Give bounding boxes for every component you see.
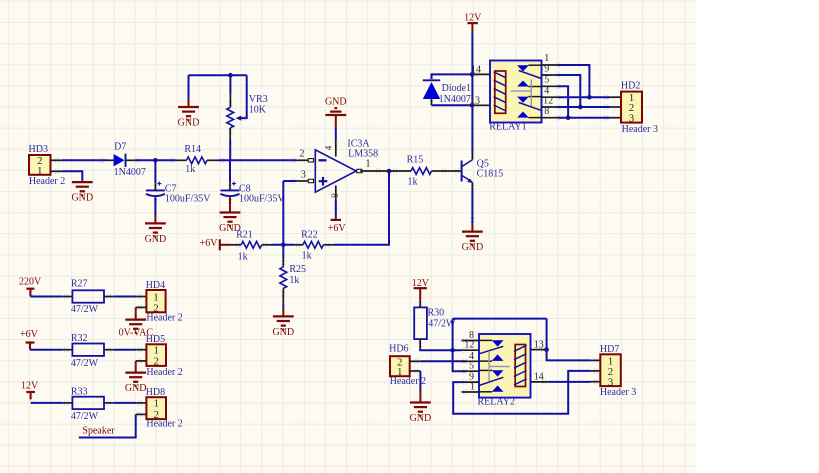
svg-text:47/2W: 47/2W [71,304,99,315]
svg-text:1k: 1k [185,164,195,175]
svg-text:1k: 1k [289,275,299,286]
svg-text:14: 14 [471,65,481,76]
svg-text:3: 3 [629,113,635,125]
svg-text:1: 1 [544,53,549,64]
svg-text:220V: 220V [19,277,42,288]
svg-text:13: 13 [470,95,480,106]
svg-text:8: 8 [329,193,339,198]
svg-text:R15: R15 [407,155,424,166]
svg-text:1N4007: 1N4007 [439,94,471,105]
svg-text:GND: GND [410,413,432,424]
svg-text:HD2: HD2 [621,80,640,91]
svg-text:R32: R32 [71,333,88,344]
svg-text:Header 3: Header 3 [622,124,658,135]
svg-text:GND: GND [178,118,200,129]
svg-text:5: 5 [544,75,549,86]
svg-text:LM358: LM358 [348,149,378,160]
svg-text:10K: 10K [249,104,267,115]
svg-text:1: 1 [366,158,371,169]
svg-text:Header 2: Header 2 [29,176,65,187]
svg-text:+6V: +6V [200,238,219,249]
svg-text:C1815: C1815 [477,169,504,180]
svg-text:12V: 12V [412,278,430,289]
svg-text:RELAY2: RELAY2 [478,396,515,407]
svg-text:HD7: HD7 [600,344,619,355]
svg-text:9: 9 [544,64,549,75]
svg-text:R22: R22 [301,230,318,241]
svg-text:GND: GND [325,97,347,108]
svg-text:4: 4 [323,145,333,150]
svg-text:100uF/35V: 100uF/35V [165,194,211,205]
svg-text:12V: 12V [464,13,482,24]
svg-text:Header 3: Header 3 [600,387,636,398]
svg-text:HD4: HD4 [146,280,165,291]
svg-text:12V: 12V [21,381,39,392]
svg-text:3: 3 [301,170,306,181]
svg-text:R21: R21 [236,230,253,241]
svg-text:Speaker: Speaker [82,426,115,437]
svg-text:100uF/35V: 100uF/35V [239,194,285,205]
svg-text:8: 8 [544,106,549,117]
svg-text:R14: R14 [184,144,201,155]
svg-text:HD5: HD5 [146,334,165,345]
svg-text:GND: GND [462,242,484,253]
svg-text:GND: GND [125,383,147,394]
svg-text:Header 2: Header 2 [146,419,182,430]
svg-text:1k: 1k [302,251,312,262]
svg-text:2: 2 [153,356,159,368]
svg-text:GND: GND [145,234,167,245]
svg-text:R33: R33 [71,386,88,397]
svg-text:R30: R30 [428,307,445,318]
svg-text:14: 14 [534,371,544,382]
svg-text:GND: GND [272,327,294,338]
svg-text:+6V: +6V [20,329,39,340]
svg-text:13: 13 [534,339,544,350]
svg-text:5: 5 [469,361,474,372]
svg-text:VR3: VR3 [249,94,268,105]
svg-text:D7: D7 [114,141,126,152]
svg-text:1k: 1k [408,177,418,188]
svg-text:HD6: HD6 [389,344,408,355]
svg-text:12: 12 [464,340,474,351]
svg-text:1: 1 [470,382,475,393]
svg-text:R25: R25 [289,264,306,275]
svg-text:Header 2: Header 2 [146,367,182,378]
svg-text:GND: GND [71,193,93,204]
svg-text:Diode1: Diode1 [442,83,471,94]
svg-text:1k: 1k [238,251,248,262]
svg-text:HD8: HD8 [146,387,165,398]
svg-text:47/2W: 47/2W [71,411,99,422]
svg-text:47/2W: 47/2W [71,358,99,369]
svg-text:Header 2: Header 2 [146,313,182,324]
svg-text:HD3: HD3 [29,144,48,155]
svg-text:2: 2 [300,149,305,160]
svg-text:1N4007: 1N4007 [114,167,146,178]
svg-text:R27: R27 [71,279,88,290]
svg-text:RELAY1: RELAY1 [489,121,526,132]
svg-text:12: 12 [543,96,553,107]
svg-text:+6V: +6V [328,223,347,234]
